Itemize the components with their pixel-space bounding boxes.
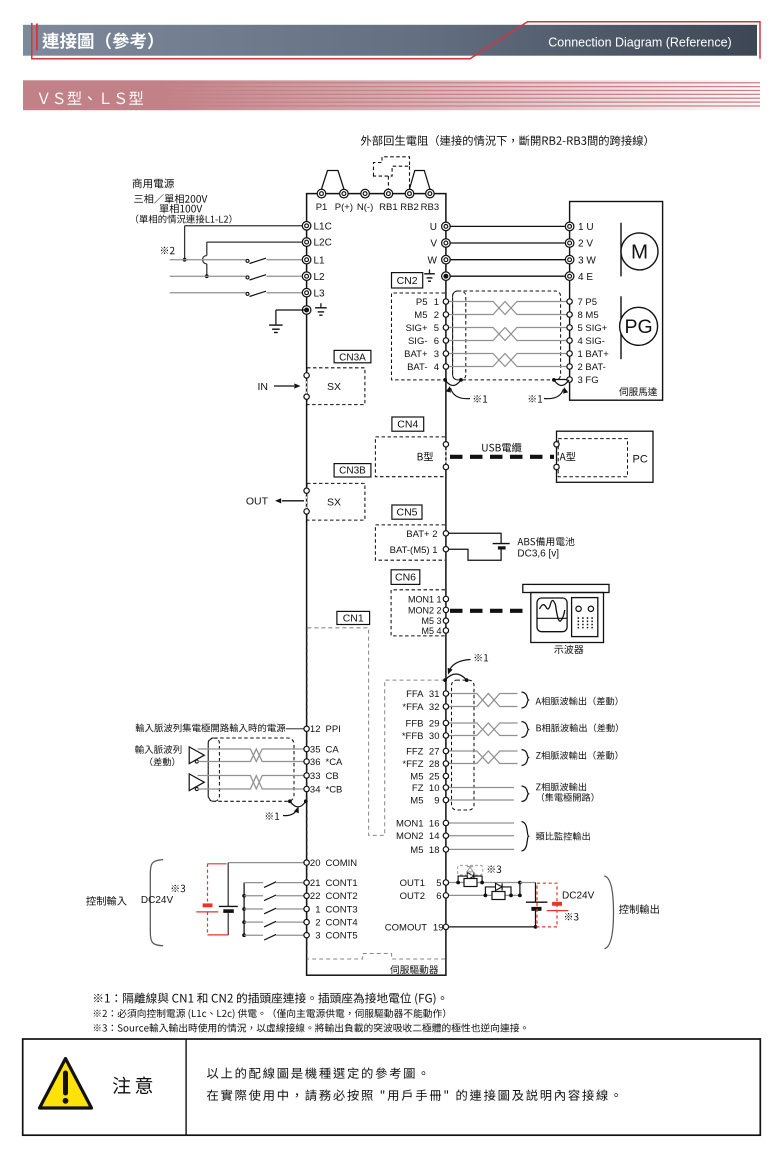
svg-text:*CA: *CA: [326, 757, 344, 768]
svg-text:9: 9: [434, 795, 439, 806]
svg-text:25: 25: [429, 771, 440, 782]
svg-text:BAT-(M5) 1: BAT-(M5) 1: [390, 545, 438, 556]
svg-text:FFB: FFB: [406, 718, 424, 729]
svg-text:CONT4: CONT4: [326, 918, 358, 929]
svg-text:L1: L1: [314, 255, 326, 266]
svg-text:DC24V: DC24V: [562, 890, 595, 901]
svg-text:PG: PG: [625, 316, 653, 338]
svg-text:3 W: 3 W: [578, 255, 596, 266]
svg-text:RB2: RB2: [400, 202, 418, 213]
svg-text:6: 6: [436, 891, 441, 902]
svg-text:CONT3: CONT3: [326, 904, 358, 915]
svg-text:Connection Diagram (Reference): Connection Diagram (Reference): [548, 36, 731, 50]
svg-text:1 BAT+: 1 BAT+: [578, 349, 610, 360]
svg-text:2 BAT-: 2 BAT-: [578, 362, 606, 373]
svg-text:IN: IN: [258, 381, 269, 393]
svg-text:20: 20: [310, 858, 321, 869]
svg-text:SX: SX: [327, 381, 341, 393]
svg-text:OUT: OUT: [246, 496, 269, 508]
svg-text:CN4: CN4: [397, 419, 418, 431]
svg-text:COMIN: COMIN: [326, 858, 358, 869]
svg-text:*FFB: *FFB: [402, 731, 424, 742]
svg-text:FFA: FFA: [406, 689, 424, 700]
svg-text:31: 31: [429, 689, 440, 700]
svg-text:OUT2: OUT2: [400, 891, 425, 902]
svg-text:22: 22: [310, 891, 321, 902]
svg-text:M5 4: M5 4: [421, 626, 441, 636]
svg-text:CONT5: CONT5: [326, 931, 358, 942]
svg-text:CN3A: CN3A: [339, 352, 366, 363]
svg-text:1: 1: [434, 297, 439, 308]
svg-text:8 M5: 8 M5: [578, 310, 599, 321]
svg-text:CN1: CN1: [343, 613, 364, 625]
svg-text:BAT+: BAT+: [404, 349, 428, 360]
svg-text:29: 29: [429, 718, 440, 729]
svg-text:34: 34: [310, 784, 321, 795]
svg-text:CONT2: CONT2: [326, 891, 358, 902]
svg-text:FFZ: FFZ: [406, 746, 424, 757]
svg-text:CA: CA: [326, 744, 340, 755]
svg-text:4 SIG-: 4 SIG-: [578, 336, 605, 347]
svg-text:7 P5: 7 P5: [578, 297, 598, 308]
svg-text:1 U: 1 U: [578, 222, 594, 233]
svg-text:U: U: [430, 222, 437, 233]
svg-text:5: 5: [434, 323, 439, 334]
svg-text:BAT-: BAT-: [407, 362, 427, 373]
svg-text:CN6: CN6: [395, 572, 416, 584]
svg-text:L3: L3: [314, 288, 326, 299]
svg-text:CN5: CN5: [396, 507, 417, 519]
svg-text:PC: PC: [633, 453, 648, 465]
svg-text:3 FG: 3 FG: [578, 375, 599, 386]
svg-text:21: 21: [310, 878, 321, 889]
svg-text:V: V: [430, 239, 437, 250]
svg-text:2: 2: [315, 918, 320, 929]
svg-text:CONT1: CONT1: [326, 878, 358, 889]
svg-text:MON2 2: MON2 2: [408, 605, 442, 615]
svg-text:M5: M5: [410, 771, 423, 782]
svg-text:4: 4: [434, 362, 439, 373]
svg-text:4 E: 4 E: [578, 272, 593, 283]
svg-text:*FFA: *FFA: [402, 702, 424, 713]
svg-text:36: 36: [310, 757, 321, 768]
svg-text:M5: M5: [414, 310, 427, 321]
svg-text:MON1: MON1: [396, 818, 423, 829]
svg-text:P(+): P(+): [335, 202, 353, 213]
svg-text:BAT+ 2: BAT+ 2: [406, 529, 437, 540]
svg-text:M5: M5: [410, 795, 423, 806]
svg-text:M: M: [631, 241, 648, 264]
svg-text:L2: L2: [314, 272, 326, 283]
svg-text:M5: M5: [410, 845, 423, 856]
svg-text:12: 12: [310, 724, 321, 735]
svg-text:*FFZ: *FFZ: [402, 759, 423, 770]
svg-text:PPI: PPI: [326, 724, 341, 735]
svg-text:DC24V: DC24V: [141, 895, 174, 906]
svg-text:3: 3: [315, 931, 320, 942]
svg-text:OUT1: OUT1: [400, 878, 425, 889]
svg-text:5 SIG+: 5 SIG+: [578, 323, 608, 334]
svg-text:MON1 1: MON1 1: [408, 594, 442, 604]
svg-text:14: 14: [429, 831, 440, 842]
svg-text:M5 3: M5 3: [421, 616, 441, 626]
svg-text:32: 32: [429, 702, 440, 713]
svg-text:19: 19: [433, 922, 444, 933]
svg-text:2: 2: [434, 310, 439, 321]
svg-text:N(-): N(-): [357, 202, 373, 213]
svg-text:5: 5: [436, 878, 441, 889]
svg-text:L1C: L1C: [314, 221, 332, 232]
svg-text:P5: P5: [416, 297, 428, 308]
svg-text:1: 1: [315, 904, 320, 915]
svg-text:18: 18: [429, 845, 440, 856]
svg-text:DC3,6 [v]: DC3,6 [v]: [517, 549, 559, 560]
svg-text:27: 27: [429, 746, 440, 757]
svg-text:CN2: CN2: [397, 275, 418, 287]
svg-text:10: 10: [429, 783, 440, 794]
svg-text:SX: SX: [327, 496, 341, 508]
svg-text:W: W: [428, 255, 438, 266]
svg-text:35: 35: [310, 744, 321, 755]
svg-text:CN3B: CN3B: [339, 466, 366, 477]
svg-text:COMOUT: COMOUT: [385, 922, 427, 933]
svg-text:FZ: FZ: [412, 783, 424, 794]
svg-text:P1: P1: [316, 202, 328, 213]
svg-text:28: 28: [429, 759, 440, 770]
svg-text:16: 16: [429, 818, 440, 829]
svg-text:*CB: *CB: [326, 784, 343, 795]
svg-text:30: 30: [429, 731, 440, 742]
svg-text:6: 6: [434, 336, 439, 347]
svg-text:SIG-: SIG-: [408, 336, 428, 347]
svg-text:SIG+: SIG+: [406, 323, 428, 334]
svg-text:L2C: L2C: [314, 238, 332, 249]
svg-text:3: 3: [434, 349, 439, 360]
svg-text:2 V: 2 V: [578, 239, 593, 250]
svg-text:MON2: MON2: [396, 831, 423, 842]
svg-text:RB3: RB3: [421, 202, 439, 213]
svg-text:CB: CB: [326, 771, 339, 782]
svg-text:RB1: RB1: [379, 202, 397, 213]
svg-text:33: 33: [310, 771, 321, 782]
